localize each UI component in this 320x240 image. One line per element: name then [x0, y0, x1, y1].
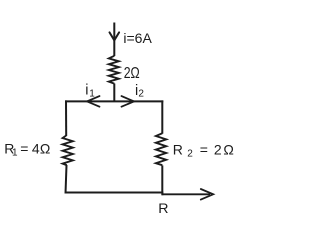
resistor R1 (vertical zigzag, left branch)	[63, 136, 73, 166]
wire: left branch upper lead	[65, 100, 67, 136]
wire: right branch upper lead	[161, 100, 163, 133]
resistor R2 (vertical zigzag, right branch)	[156, 133, 166, 165]
svg-text:4: 4	[32, 140, 40, 156]
svg-text:1: 1	[89, 89, 95, 100]
wire: left branch lower lead	[66, 165, 67, 194]
svg-text:i: i	[85, 83, 88, 99]
svg-text:Ω: Ω	[40, 140, 50, 156]
wire: right branch lower lead	[161, 165, 163, 195]
wire: source top lead	[113, 23, 115, 57]
svg-text:1: 1	[12, 148, 18, 159]
svg-text:2: 2	[214, 142, 222, 158]
svg-text:=: =	[20, 140, 28, 156]
arrowhead i2 (pointing right on top rail)	[122, 96, 135, 107]
wire: resistor bottom lead down to node	[113, 84, 115, 103]
resistor 2Ω (series, vertical zigzag)	[109, 56, 119, 84]
wire: output lead to the right	[163, 193, 211, 195]
arrowhead i1 (pointing left on top rail)	[87, 96, 100, 107]
wire: top horizontal rail	[65, 100, 163, 102]
svg-text:2Ω: 2Ω	[124, 65, 140, 82]
current arrow i (downward arrowhead on top lead)	[110, 32, 120, 40]
wire: bottom rail of loop	[65, 192, 163, 194]
arrowhead output (pointing right at end of output lead)	[201, 189, 213, 200]
svg-text:R: R	[173, 142, 183, 158]
svg-text:i=6A: i=6A	[123, 30, 152, 46]
svg-text:=: =	[200, 142, 208, 158]
svg-text:R: R	[158, 201, 168, 217]
svg-text:2: 2	[138, 88, 144, 99]
svg-text:Ω: Ω	[223, 142, 233, 158]
svg-text:2: 2	[187, 149, 193, 160]
